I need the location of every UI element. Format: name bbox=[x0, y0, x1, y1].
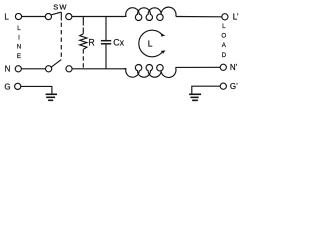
terminal L' bbox=[222, 14, 228, 20]
terminal G' bbox=[220, 83, 226, 89]
svg-text:D: D bbox=[222, 52, 227, 59]
ground (left) bbox=[46, 93, 57, 95]
svg-text:SW: SW bbox=[53, 3, 67, 12]
switch pole 1 blade bbox=[51, 12, 61, 15]
wire switch to coil (bottom) bbox=[72, 68, 126, 70]
terminal N' bbox=[220, 64, 226, 70]
svg-text:G: G bbox=[4, 82, 10, 91]
wire G to ground bbox=[21, 86, 52, 94]
ground (right) bbox=[189, 93, 201, 95]
resistor R top lead (part dashed) bbox=[82, 17, 84, 26]
svg-text:N: N bbox=[17, 44, 21, 51]
switch pole 1 contact a bbox=[45, 14, 51, 20]
choke top winding (inductor coil) bbox=[124, 7, 176, 20]
arrowhead bottom bbox=[161, 50, 166, 53]
switch pole 2 contact b bbox=[66, 66, 72, 72]
svg-text:O: O bbox=[221, 33, 226, 40]
label LOAD (vertical) bbox=[221, 23, 226, 59]
terminal N bbox=[15, 66, 21, 72]
resistor R bottom lead (dashed) bbox=[82, 49, 84, 69]
wire bottom coil to N' bbox=[176, 66, 221, 68]
wire N terminal to switch bbox=[22, 68, 46, 70]
label LINE (vertical) bbox=[17, 25, 22, 60]
terminal G bbox=[15, 83, 21, 89]
switch pole 1 contact b bbox=[66, 14, 72, 20]
terminal L bbox=[15, 13, 21, 19]
svg-text:L: L bbox=[17, 25, 21, 32]
choke rotation symbol (circle with arrows) bbox=[139, 30, 162, 57]
svg-text:N’: N’ bbox=[230, 63, 238, 72]
switch linkage (dashed) bbox=[60, 12, 62, 20]
switch pole 2 contact a bbox=[46, 66, 52, 72]
wire L terminal to switch bbox=[22, 16, 46, 18]
svg-text:R: R bbox=[88, 38, 94, 48]
capacitor Cx plates bbox=[101, 40, 111, 42]
arrowhead top bbox=[161, 33, 166, 37]
choke bottom winding (inductor coil) bbox=[124, 64, 176, 77]
wire top coil to L' bbox=[176, 16, 222, 18]
wire G' to ground bbox=[192, 86, 220, 94]
capacitor Cx top lead bbox=[105, 17, 107, 41]
svg-text:L: L bbox=[148, 38, 153, 48]
svg-text:L: L bbox=[222, 23, 226, 30]
capacitor Cx bottom lead bbox=[105, 45, 107, 69]
svg-text:I: I bbox=[18, 34, 20, 41]
svg-text:G’: G’ bbox=[230, 82, 238, 91]
svg-text:L: L bbox=[4, 12, 9, 21]
svg-text:E: E bbox=[17, 53, 21, 60]
svg-text:L’: L’ bbox=[233, 13, 239, 22]
wire switch to coil (top) bbox=[72, 16, 125, 18]
resistor R zigzag bbox=[80, 34, 87, 50]
switch pole 2 blade bbox=[51, 60, 61, 68]
svg-text:Cx: Cx bbox=[113, 38, 124, 48]
svg-text:N: N bbox=[5, 65, 11, 74]
